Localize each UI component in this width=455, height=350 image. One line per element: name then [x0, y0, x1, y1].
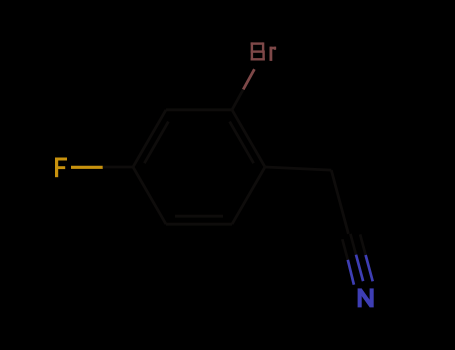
bond C2-Br carbon half [232, 90, 243, 110]
benzene ring edge C5-C6 (BL-BR) [166, 223, 232, 226]
bond C2-Br red half [243, 69, 254, 89]
benzene ring edge C1-C2 (R-TR) [232, 110, 265, 167]
nitrile triple bond middle line blue half [356, 255, 363, 281]
benzene ring edge C3-C4 (TL-L) [133, 110, 166, 167]
bond C4-F gold half [71, 166, 103, 169]
double bond inner line C5=C6 [175, 215, 223, 218]
atom label Br : letter B (custom blocky glyph) [251, 42, 265, 60]
nitrile triple bond middle line carbon half [350, 234, 356, 255]
nitrile triple bond left line blue half [348, 260, 354, 285]
bond CH2-C(nitrile) [331, 170, 348, 234]
bond C4-F carbon half [103, 166, 133, 169]
bond C1-CH2 [265, 167, 331, 170]
nitrile triple bond left line carbon half [342, 239, 348, 260]
benzene ring edge C4-C5 (L-BL) [133, 167, 166, 224]
double bond inner line C1=C2 [230, 122, 254, 164]
atom label F (custom blocky glyph) [55, 158, 67, 178]
atom label Br : letter r (custom blocky glyph) [270, 47, 277, 61]
benzene ring edge C1-C6 (R-BR) [232, 167, 265, 224]
double bond inner line C3=C4 [144, 122, 168, 164]
atom label N (custom blocky glyph) [358, 288, 374, 307]
nitrile triple bond right line blue half [366, 255, 373, 281]
nitrile triple bond right line carbon half [360, 234, 366, 255]
benzene ring edge C2-C3 (TR-TL) [166, 108, 232, 111]
